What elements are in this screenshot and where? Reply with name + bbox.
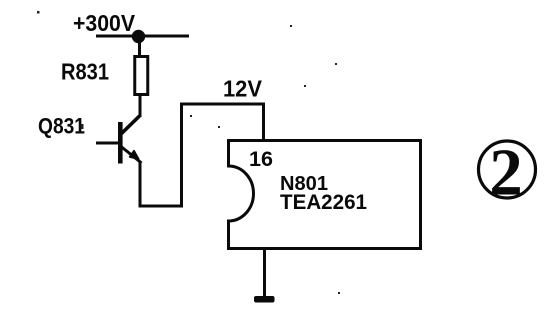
node junction on +300V rail [132, 30, 145, 43]
speck noise dots [37, 11, 340, 294]
resistor R831 [135, 57, 148, 95]
svg-text:12V: 12V [223, 76, 263, 102]
figure number: circled 2 [479, 136, 536, 210]
label N801 [280, 173, 328, 195]
wire IC to ground [263, 248, 266, 297]
wire base lead of Q831 [96, 142, 119, 145]
wire emitter bottom horizontal [139, 205, 184, 208]
wire 12V rail [180, 103, 265, 106]
wire emitter down [139, 161, 142, 206]
svg-text:16: 16 [249, 148, 273, 171]
transistor Q831 [120, 115, 141, 164]
svg-text:TEA2261: TEA2261 [280, 191, 367, 214]
wire resistor to Q831 collector [139, 95, 142, 117]
label R831 [61, 59, 109, 85]
wire +300V rail [96, 35, 189, 38]
wire node to resistor R831 [138, 36, 141, 56]
svg-text:+300V: +300V [73, 10, 136, 36]
svg-text:R831: R831 [61, 59, 109, 85]
label TEA2261 [280, 191, 367, 214]
IC N801 TEA2261 outline with pin-1 notch [229, 141, 421, 249]
label 12V [223, 76, 263, 102]
wire up to 12V rail [180, 103, 183, 208]
ground [254, 296, 275, 303]
label +300V [73, 10, 136, 36]
label Q831 [38, 114, 85, 139]
wire 12V rail to IC pin 16 [262, 104, 265, 140]
svg-text:Q831: Q831 [38, 114, 85, 139]
pin label 16 [249, 148, 273, 171]
svg-text:2: 2 [489, 136, 523, 210]
